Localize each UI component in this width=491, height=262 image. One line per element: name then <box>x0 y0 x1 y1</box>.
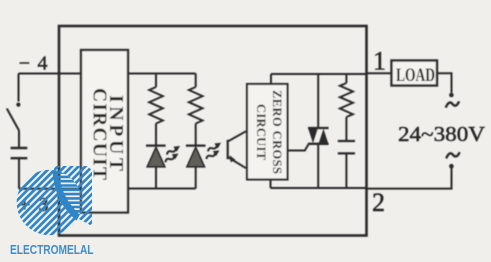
wire: output bottom bus <box>271 187 367 189</box>
wire: LOAD to AC source top <box>437 73 452 93</box>
wire: bottom bus LED branches to INPUT box <box>128 188 196 190</box>
AC tilde mark bottom <box>446 152 459 158</box>
wire: ZC box bottom stub <box>270 180 272 189</box>
switch S1 blade (open) <box>7 109 19 131</box>
LED D2 cathode bar <box>186 144 206 146</box>
svg-text:CIRCUIT: CIRCUIT <box>89 88 110 180</box>
node: AC source top dot <box>449 93 454 98</box>
svg-text:CIRCUIT: CIRCUIT <box>254 104 268 161</box>
svg-text:2: 2 <box>372 188 385 217</box>
svg-text:ZERO CROSS: ZERO CROSS <box>270 90 284 174</box>
wire: C1 to bottom bus <box>345 153 347 188</box>
battery B1 plate top <box>11 147 28 149</box>
wire: triac branch bottom <box>317 144 319 188</box>
phototransistor Q1 emitter arrowhead <box>230 155 236 162</box>
svg-text:− 4: − 4 <box>19 53 49 75</box>
resistor R2 <box>189 87 203 124</box>
wire: ZC box top stub to top bus <box>270 74 272 84</box>
SSR body outline box <box>59 26 367 236</box>
phototransistor Q1 emitter <box>228 157 246 168</box>
capacitor C1 bottom plate <box>338 152 355 154</box>
wire: switch to battery <box>18 131 20 148</box>
svg-text:24~380V: 24~380V <box>398 122 485 146</box>
wire: resistor R1 branch stub <box>155 74 157 88</box>
block: LOAD box <box>392 61 438 86</box>
triac Q2 right triangle (apex up) <box>319 129 329 143</box>
capacitor C1 top plate <box>338 140 355 142</box>
resistor R3 (snubber) <box>340 83 353 117</box>
wire: triac gate to ZC box <box>288 144 309 151</box>
wire: input terminal 4 to INPUT CIRCUIT <box>19 73 82 75</box>
wire: terminal 1 to LOAD <box>367 72 392 74</box>
node: switch top contact dot <box>16 103 20 107</box>
wire: LED1 to bottom bus <box>155 167 157 189</box>
phototransistor Q1 base bar <box>227 140 229 159</box>
svg-text:LOAD: LOAD <box>396 66 435 86</box>
LED D2 triangle <box>187 147 205 167</box>
resistor R1 <box>149 87 163 124</box>
block U2: ZERO CROSS CIRCUIT box <box>247 84 288 180</box>
wire: LED2 to bottom bus <box>195 167 197 189</box>
LED D1 triangle <box>147 147 165 167</box>
svg-text:1: 1 <box>373 47 386 76</box>
block U1: INPUT CIRCUIT box <box>81 50 128 213</box>
watermark: horizontal-stripe wedge of logo <box>16 166 87 233</box>
wire: R2 to LED2 <box>195 124 197 146</box>
triac Q2 left triangle (apex down) <box>308 129 317 143</box>
wire: top bus INPUT box to LED branches <box>128 73 196 75</box>
wire: resistor R2 branch stub <box>195 74 197 88</box>
svg-text:ELECTROMELAL: ELECTROMELAL <box>10 243 94 257</box>
wire: snubber branch top stub <box>345 74 347 83</box>
wire: terminal 4 vertical drop to switch contact <box>18 74 20 102</box>
LED D1 cathode bar <box>146 144 166 146</box>
light ray arrows from LED D2 (pair) <box>206 141 222 154</box>
wire: AC source bottom to terminal 2 <box>367 168 452 189</box>
wire: R3 to C1 <box>345 117 347 141</box>
node: AC source bottom dot <box>449 164 454 169</box>
wire: R1 to LED1 <box>155 124 157 146</box>
wire: battery to bottom input wire <box>18 158 20 189</box>
triac Q2 top bar <box>308 127 329 129</box>
phototransistor Q1 collector <box>228 131 246 141</box>
watermark: Electromelal striped circle logo (diagonal part) <box>0 110 141 262</box>
triac Q2 bottom bar <box>308 143 329 145</box>
wire: output top bus <box>271 73 367 75</box>
light ray arrows from LED D1 (pair) <box>165 144 181 157</box>
watermark: bend band along wedge boundary <box>53 166 85 224</box>
wire: input terminal 3 to INPUT CIRCUIT <box>19 188 81 190</box>
battery B1 plate bottom <box>11 157 28 159</box>
wire: triac branch top <box>317 74 319 128</box>
AC tilde mark top <box>446 101 459 107</box>
